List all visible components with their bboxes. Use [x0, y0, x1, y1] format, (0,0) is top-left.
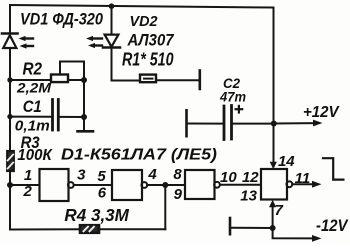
- gate D1.4: [261, 169, 292, 200]
- wire left rail lower: [9, 171, 11, 230]
- svg-text:2,2М: 2,2М: [16, 81, 52, 96]
- svg-text:2: 2: [23, 183, 33, 200]
- junction G2 out: [162, 182, 168, 188]
- wire +12V rail: [273, 8, 275, 163]
- gate D1.2: [112, 170, 147, 200]
- junction VD2 top: [109, 3, 115, 9]
- terminal X1: [199, 71, 202, 90]
- resistor R1: [140, 75, 156, 83]
- led VD2: [86, 7, 120, 49]
- capacitor C1: [53, 100, 59, 131]
- svg-text:7: 7: [275, 202, 284, 219]
- svg-text:8: 8: [173, 166, 182, 183]
- wire +12V arrow: [274, 120, 323, 127]
- junction +12V: [271, 121, 277, 127]
- terminal X2: [229, 218, 232, 234]
- wire mid rail: [83, 62, 85, 118]
- svg-text:47m: 47m: [219, 90, 246, 105]
- gate D1.3: [185, 170, 220, 199]
- photodiode VD1: [2, 34, 33, 49]
- svg-text:11: 11: [295, 170, 311, 187]
- wire left rail upper: [9, 5, 11, 34]
- svg-text:+12V: +12V: [303, 104, 340, 121]
- wire top rail: [10, 5, 274, 8]
- wire G1 input: [10, 184, 40, 186]
- wire G2 out: [147, 184, 185, 186]
- svg-text:R4 3,3М: R4 3,3М: [64, 205, 129, 225]
- svg-text:4: 4: [147, 166, 157, 183]
- resistor R2: [51, 75, 68, 83]
- junction R2 left: [7, 77, 12, 82]
- ground: [78, 117, 94, 131]
- resistor R4: [80, 225, 99, 233]
- svg-text:9: 9: [174, 186, 183, 203]
- junction R2 right: [81, 77, 87, 83]
- wire G4 out arrow: [292, 181, 321, 188]
- junction C1 left: [7, 114, 12, 119]
- wire left rail mid: [9, 48, 11, 151]
- wire C1 right: [60, 116, 85, 118]
- wire terminal to junction: [230, 227, 273, 229]
- capacitor C2: [187, 106, 274, 140]
- resistor R3: [7, 151, 14, 171]
- wire R1 to terminal: [156, 79, 199, 81]
- wire G1 out: [74, 184, 112, 186]
- pin 7 arrow: [269, 200, 276, 208]
- wire bottom right: [99, 228, 165, 230]
- svg-text:12: 12: [242, 169, 259, 186]
- wire C1 left: [10, 116, 52, 118]
- wire -12V arrow: [273, 228, 322, 242]
- svg-text:D1-К561ЛА7 (ЛЕ5): D1-К561ЛА7 (ЛЕ5): [61, 147, 217, 164]
- svg-text:АЛ307: АЛ307: [127, 30, 175, 49]
- junction -12V: [270, 225, 276, 231]
- waveform symbol: [323, 158, 343, 179]
- svg-text:5: 5: [97, 168, 106, 185]
- svg-text:C1: C1: [23, 98, 42, 116]
- wire VD2 to R1: [112, 48, 141, 81]
- svg-text:-12V: -12V: [316, 216, 349, 235]
- svg-text:13: 13: [240, 188, 257, 205]
- svg-text:VD1 ФД-320: VD1 ФД-320: [20, 9, 103, 28]
- gate D1.1: [40, 169, 74, 201]
- wire R2 right: [68, 79, 84, 81]
- svg-text:10: 10: [220, 169, 237, 186]
- wire feedback drop: [164, 185, 166, 229]
- svg-text:6: 6: [98, 185, 107, 202]
- wire G3 out: [220, 184, 261, 186]
- svg-text:100К: 100К: [17, 147, 53, 164]
- svg-text:R1* 510: R1* 510: [122, 50, 174, 70]
- wire bottom left: [10, 228, 80, 230]
- svg-text:1: 1: [24, 167, 32, 184]
- junction C1 right: [81, 114, 87, 120]
- junction G1 input: [7, 182, 13, 188]
- svg-text:14: 14: [278, 153, 295, 170]
- wire R2 bypass stub: [60, 62, 84, 81]
- svg-text:VD2: VD2: [130, 13, 159, 30]
- wire R2 left: [10, 79, 51, 81]
- svg-text:3: 3: [77, 166, 86, 183]
- pin 14 arrow: [270, 162, 277, 170]
- pin 7 wire: [272, 206, 274, 228]
- svg-text:R2: R2: [23, 58, 43, 78]
